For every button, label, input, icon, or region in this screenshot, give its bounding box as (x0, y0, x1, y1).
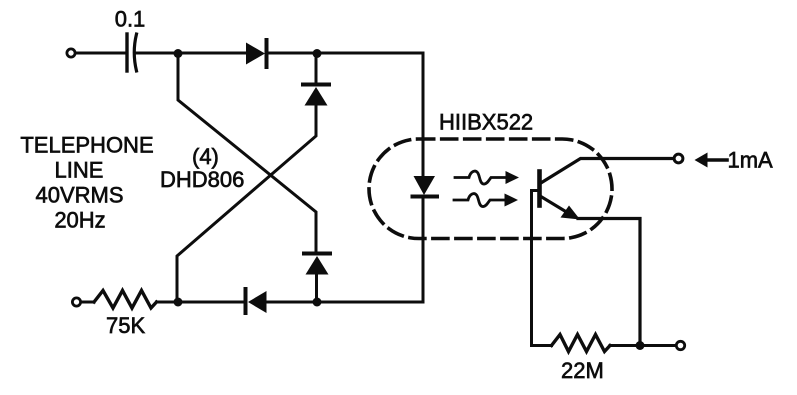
phototransistor Q1 base bar (537, 172, 542, 206)
terminal collector output (674, 154, 683, 163)
wire terminal to resistor R1 (82, 301, 95, 304)
wire D1 to node C (267, 52, 317, 55)
svg-text:DHD806: DHD806 (160, 167, 244, 192)
node A (top-left junction) (174, 49, 183, 58)
wire resistor to emitter output (610, 344, 676, 347)
svg-text:TELEPHONE: TELEPHONE (20, 133, 153, 158)
wire node A down-diagonal to lower middle diode (bridge arm) (178, 53, 316, 251)
wire resistor to node B (157, 301, 179, 304)
svg-text:LINE: LINE (55, 158, 104, 183)
resistor R1 75K (zigzag) (94, 291, 157, 309)
wire node A to diode D1 (178, 52, 246, 55)
wire base bottom to resistor R2 (532, 344, 552, 347)
svg-text:0.1: 0.1 (115, 7, 146, 32)
label (4) DHD806 (160, 144, 244, 192)
node B (bottom-left junction) (174, 298, 183, 307)
capacitor C1 0.1 (127, 34, 137, 71)
Q1 collector lead (540, 159, 674, 184)
wire node B to diode D3 (178, 301, 246, 304)
light arrow 1 (squiggle, upper) (455, 171, 519, 184)
svg-text:22M: 22M (561, 358, 604, 383)
wire node D to right vertical (317, 301, 423, 304)
svg-text:HIIBX522: HIIBX522 (439, 110, 533, 135)
diode D2 (upper middle, pointing up, cathode bar top) (303, 53, 329, 106)
right vertical wire (LED branch, lower) (422, 197, 425, 302)
node E (emitter/base junction) (636, 341, 645, 350)
terminal emitter output (676, 341, 684, 349)
svg-text:40VRMS: 40VRMS (35, 183, 123, 208)
wire node C to right vertical (317, 52, 423, 55)
terminal TIP (top-left input) (67, 49, 75, 57)
node D (bottom-right junction of bridge) (313, 298, 322, 307)
resistor R2 22M (zigzag) (552, 335, 611, 352)
wire node B up-diagonal to upper middle diode (bridge arm) (177, 106, 316, 302)
optocoupler U1 dashed outline (369, 139, 612, 239)
terminal RING (bottom-left input) (72, 298, 80, 306)
label TELEPHONE LINE 40VRMS 20Hz (20, 133, 153, 233)
node C (top-right junction of bridge) (313, 49, 322, 58)
light arrow 2 (squiggle, lower) (454, 194, 518, 207)
svg-text:75K: 75K (106, 313, 145, 338)
LED of optocoupler (pointing down) (413, 176, 438, 197)
svg-text:20Hz: 20Hz (54, 208, 105, 233)
svg-text:(4): (4) (192, 144, 219, 169)
Q1 emitter lead with arrow (540, 196, 640, 346)
diode D1 (top, pointing right) (246, 40, 267, 67)
Q1 base lead down (532, 191, 540, 346)
diode D3 (bottom, pointing left, cathode bar left) (246, 289, 267, 313)
wire capacitor to top-left node (137, 52, 178, 55)
right vertical wire (LED branch, upper) (422, 53, 425, 176)
svg-text:1mA: 1mA (728, 148, 774, 173)
1mA arrow (695, 153, 728, 168)
diode D4 (lower middle, pointing up, cathode bar top) (304, 254, 330, 303)
wire D3 to node D (266, 301, 317, 304)
wire terminal to capacitor (76, 52, 125, 55)
